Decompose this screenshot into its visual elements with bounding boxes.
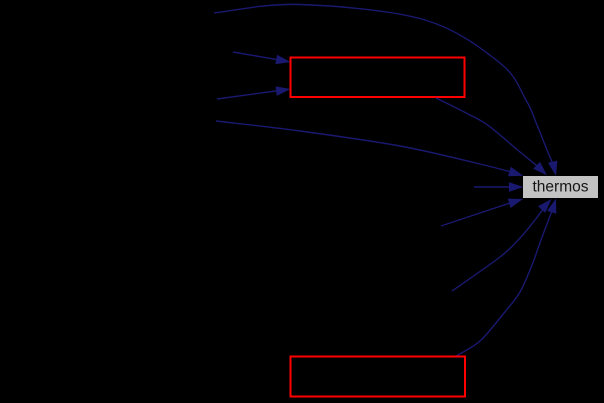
arrowhead lower arrow at box N1 [276, 86, 291, 96]
arrowhead long diagonal at thermos top-left corner [508, 167, 523, 176]
arrowhead node7 edge at thermos bottom [538, 199, 552, 213]
arrowhead box N1 edge at thermos top [533, 162, 547, 176]
edge box N1->thermos (wire) [436, 98, 539, 168]
arrowhead horizontal at thermos left edge [509, 182, 524, 192]
arrowhead lower-left diagonal at thermos bottom-left corner [508, 199, 523, 208]
truncated node N1 (red box top) [291, 58, 465, 98]
node thermos (gray box) [523, 176, 598, 198]
edge node4->thermos (long diagonal wire) [216, 121, 513, 173]
edge node6->thermos (lower-left diagonal wire) [441, 202, 513, 226]
edge node7->thermos (from below wire) [452, 208, 544, 291]
arrowhead big arc at thermos top [548, 161, 558, 176]
truncated node N2 (red box bottom) [291, 357, 466, 397]
edge node5->thermos (horizontal wire) [474, 186, 512, 188]
arrowhead upper arrow at box N1 [275, 55, 290, 65]
edge node1->thermos (big top arc wire) [214, 4, 554, 165]
svg-text:thermos: thermos [533, 178, 589, 195]
edge node3->box N1 (lower arrow wire) [217, 91, 280, 100]
edge box N2->thermos (wire) [456, 209, 553, 356]
edge node2->box N1 (upper arrow wire) [233, 52, 280, 60]
arrowhead box N2 edge at thermos bottom [547, 199, 556, 214]
